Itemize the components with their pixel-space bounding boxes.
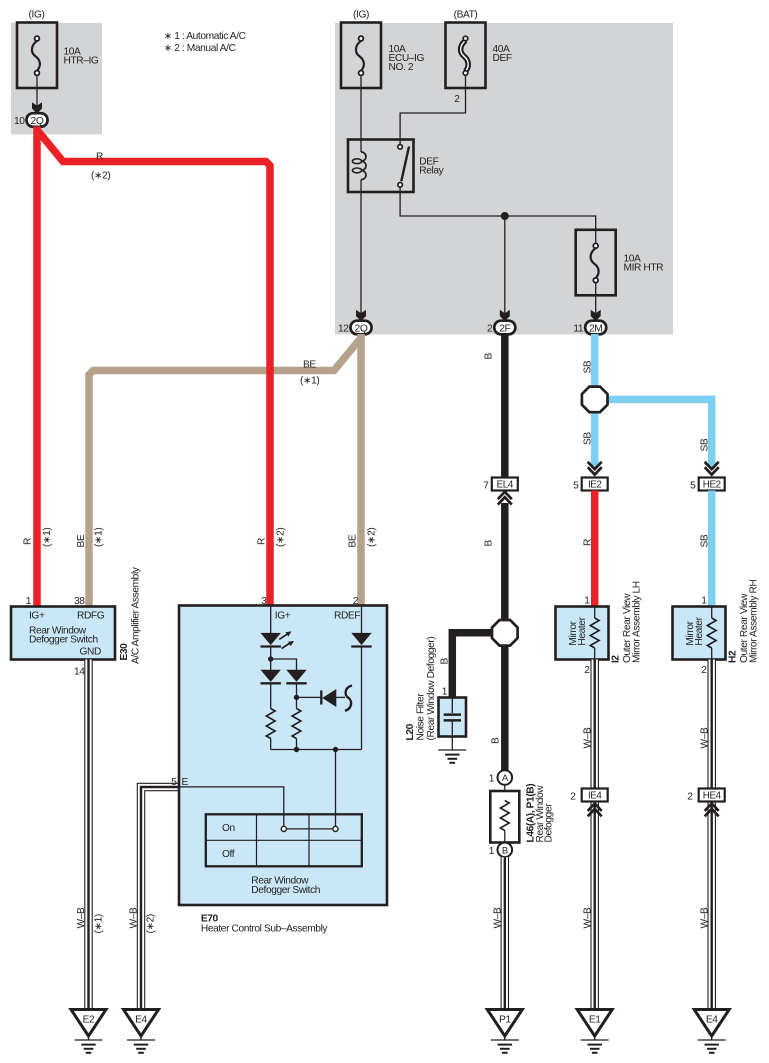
wire W-B from H2 to ground E4 — [707, 660, 716, 1010]
svg-text:E: E — [182, 777, 189, 788]
wire node to zener — [297, 696, 322, 698]
svg-text:Mirror Assembly RH: Mirror Assembly RH — [749, 580, 760, 663]
wire relay switch to 2F and MIR HTR fuse — [400, 187, 596, 230]
wire E pin to switch left contact — [180, 787, 284, 826]
svg-text:IE2: IE2 — [588, 480, 602, 491]
arrow into 11 2M — [591, 310, 601, 321]
connector B — [489, 843, 512, 858]
wire 40A DEF fuse to relay switch — [400, 88, 465, 144]
node dot bus left — [294, 747, 299, 752]
svg-text:38: 38 — [74, 596, 85, 607]
ground of noise filter — [438, 737, 466, 763]
svg-text:7: 7 — [483, 481, 489, 492]
wire B from 2F to EL4 — [501, 334, 509, 478]
noise filter L20 — [439, 698, 467, 737]
connector 12 2Q — [338, 321, 372, 335]
svg-text:(∗2): (∗2) — [367, 528, 378, 547]
arrow into 2Q — [32, 102, 42, 113]
svg-text:(∗2): (∗2) — [91, 171, 110, 182]
LED on RDEF line — [351, 633, 371, 647]
svg-text:Heater: Heater — [577, 616, 588, 645]
switch table Rear Window Defogger Switch — [206, 814, 362, 866]
wire SB from 2M to IE2 — [591, 334, 599, 468]
bus wire bottom of LEDs — [271, 749, 362, 751]
wire D1 to resistor R1 — [270, 684, 272, 709]
wire W-B from I2 to ground E1 — [590, 660, 599, 1010]
ECU E30 A/C Amplifier Assembly — [11, 607, 115, 660]
relay DEF Relay — [348, 140, 445, 193]
svg-text:5: 5 — [573, 481, 579, 492]
svg-text:B: B — [484, 353, 495, 360]
svg-text:B: B — [491, 737, 502, 744]
svg-text:B: B — [440, 658, 451, 665]
svg-text:5: 5 — [690, 481, 696, 492]
svg-text:2F: 2F — [499, 324, 510, 335]
diode D1 left — [261, 670, 281, 684]
relay coil — [352, 152, 366, 192]
svg-text:EL4: EL4 — [497, 480, 514, 491]
connector 5 IE2 — [573, 478, 608, 492]
junction octagon on B wire — [492, 620, 518, 646]
svg-text:On: On — [222, 823, 235, 834]
svg-text:R: R — [23, 538, 34, 545]
svg-text:Relay: Relay — [419, 166, 444, 177]
ground E1 — [577, 1010, 612, 1053]
wire R from IE2 to mirror heater I2 — [591, 491, 599, 607]
svg-text:3: 3 — [261, 596, 267, 607]
svg-text:(∗1): (∗1) — [42, 528, 53, 547]
node junction dot on relay output — [501, 212, 509, 220]
wire SB branch octagon to HE2 — [605, 399, 712, 467]
chevrons above IE2 — [588, 462, 602, 475]
label R (*1) rotated — [23, 528, 54, 547]
svg-text:(∗2): (∗2) — [146, 914, 157, 933]
fuse HTR-IG F1 — [17, 10, 99, 89]
svg-text:14: 14 — [74, 667, 85, 678]
wire BE *1 branch to E30 pin 38 — [89, 339, 360, 607]
wire D2 to node — [296, 684, 298, 709]
svg-text:2: 2 — [570, 792, 576, 803]
svg-text:BE: BE — [76, 534, 87, 547]
svg-text:W–B: W–B — [699, 727, 710, 748]
svg-text:B: B — [484, 540, 495, 547]
mirror heater H2 — [673, 607, 726, 660]
node dot branch — [268, 656, 273, 661]
diode D2 right — [286, 670, 306, 684]
svg-text:2: 2 — [454, 94, 460, 105]
svg-text:12: 12 — [338, 324, 349, 335]
svg-text:W–B: W–B — [493, 907, 504, 928]
svg-text:(Rear Window Defogger): (Rear Window Defogger) — [426, 637, 437, 741]
node dot zener branch — [294, 695, 299, 700]
wire BE *2 from 12 2Q to E70 pin 2 — [357, 334, 365, 606]
fuse ECU-IG NO.2 — [341, 10, 425, 89]
wire relay coil to connector 2Q — [360, 192, 362, 314]
svg-text:R: R — [257, 538, 268, 545]
chevrons below HE4 — [705, 804, 719, 817]
wire bus to switch right contact — [335, 750, 337, 827]
svg-text:SB: SB — [582, 432, 593, 445]
svg-text:1: 1 — [442, 687, 448, 698]
svg-text:E30: E30 — [119, 643, 130, 661]
wire B branch to noise filter — [452, 633, 505, 698]
svg-text:P1: P1 — [499, 1015, 511, 1026]
junction block shading top-left — [11, 23, 102, 134]
svg-text:Noise Filter: Noise Filter — [416, 693, 427, 741]
wire R1 to bus — [270, 739, 272, 750]
svg-text:(∗1): (∗1) — [94, 914, 105, 933]
svg-text:2: 2 — [487, 324, 493, 335]
wire R *2 branch to E70 pin 3 — [38, 131, 270, 606]
svg-text:Heater: Heater — [694, 616, 705, 645]
svg-text:NO. 2: NO. 2 — [389, 62, 414, 73]
svg-text:(IG): (IG) — [353, 10, 369, 21]
ground E4 right — [694, 1010, 729, 1053]
connector 2 IE4 — [570, 789, 607, 803]
svg-text:HTR–IG: HTR–IG — [64, 56, 99, 67]
rear window defogger L46 — [490, 785, 519, 843]
junction octagon on SB wire — [582, 387, 608, 413]
connector 2 2F — [487, 321, 515, 335]
svg-text:R: R — [582, 539, 593, 546]
wire R2 to bus — [296, 739, 298, 750]
wire B from EL4 to rear defogger — [501, 503, 509, 771]
connector A — [489, 770, 512, 785]
arrow into 2 2F — [500, 310, 510, 321]
svg-text:(∗1): (∗1) — [300, 376, 319, 387]
svg-text:W–B: W–B — [699, 907, 710, 928]
svg-text:2: 2 — [584, 665, 590, 676]
label R (*2) rotated — [257, 528, 287, 547]
svg-text:2Q: 2Q — [31, 116, 44, 127]
svg-text:1: 1 — [584, 595, 590, 606]
wire ECU-IG fuse to relay coil — [360, 88, 362, 152]
svg-text:HE4: HE4 — [703, 791, 722, 802]
connector 7 EL4 — [483, 478, 518, 492]
wire SB from HE2 to mirror heater H2 — [708, 491, 716, 607]
connector 10 2Q — [14, 113, 48, 127]
svg-text:A/C Amplifier Assembly: A/C Amplifier Assembly — [131, 566, 142, 664]
svg-text:(∗2): (∗2) — [276, 528, 287, 547]
svg-text:∗ 1 : Automatic A/C: ∗ 1 : Automatic A/C — [164, 31, 246, 42]
svg-text:1: 1 — [26, 596, 32, 607]
zener diode — [321, 686, 352, 711]
svg-text:HE2: HE2 — [703, 480, 721, 491]
wire fuse HTR-IG to connector 2Q — [36, 88, 38, 106]
svg-text:B: B — [502, 845, 508, 856]
svg-text:DEF: DEF — [493, 53, 512, 64]
relay switch contacts — [398, 145, 409, 188]
fuse 40A DEF — [446, 10, 512, 89]
svg-text:W–B: W–B — [582, 907, 593, 928]
ground P1 — [487, 1010, 522, 1053]
svg-text:2Q: 2Q — [355, 324, 368, 335]
svg-text:∗ 2 : Manual A/C: ∗ 2 : Manual A/C — [164, 43, 236, 54]
svg-text:1: 1 — [489, 846, 495, 857]
svg-text:11: 11 — [573, 324, 584, 335]
LED indicator on IG+ line — [261, 631, 295, 648]
connector 2 HE4 — [687, 789, 724, 803]
svg-text:R: R — [96, 152, 103, 163]
resistor R1 — [266, 709, 275, 739]
wire RDEF LED to bus — [361, 647, 363, 750]
ground E2 — [71, 1010, 106, 1053]
svg-text:1: 1 — [701, 595, 707, 606]
svg-text:(BAT): (BAT) — [454, 10, 478, 21]
svg-text:IG+: IG+ — [29, 611, 45, 622]
label L20 Noise Filter rotated — [405, 637, 437, 741]
label BE (*1) rotated — [76, 528, 105, 548]
switch contacts On row — [281, 826, 338, 831]
svg-text:Heater Control Sub–Assembly: Heater Control Sub–Assembly — [201, 924, 329, 935]
svg-text:2: 2 — [701, 665, 707, 676]
wire LED to node — [270, 647, 272, 670]
wire IG+ internal — [270, 606, 272, 633]
node dot bus right — [333, 747, 338, 752]
wire W-B *1 from E30 pin 14 to ground E2 — [84, 660, 93, 1010]
wire W-B from B to ground P1 — [501, 857, 510, 1009]
connector 11 2M — [573, 321, 606, 335]
svg-text:W–B: W–B — [582, 727, 593, 748]
resistor R2 — [292, 709, 301, 739]
svg-text:RDEF: RDEF — [334, 611, 360, 622]
svg-text:5: 5 — [171, 777, 177, 788]
label Rear Window Defogger Switch — [251, 876, 320, 896]
svg-text:IE4: IE4 — [588, 791, 602, 802]
svg-text:L20: L20 — [405, 723, 416, 740]
svg-text:SB: SB — [699, 438, 710, 451]
label BE (*2) rotated — [348, 528, 378, 548]
svg-text:SB: SB — [699, 534, 710, 547]
wire W-B *2 from E70 pin 5 to ground E4 — [141, 787, 179, 1010]
arrow into 12 2Q — [356, 310, 366, 321]
svg-text:1: 1 — [489, 774, 495, 785]
svg-text:E2: E2 — [83, 1015, 95, 1026]
svg-text:(∗1): (∗1) — [94, 528, 105, 547]
ground E4 left — [124, 1010, 159, 1053]
svg-text:Defogger: Defogger — [544, 803, 555, 843]
connector 5 HE2 — [690, 478, 725, 492]
svg-text:2: 2 — [687, 792, 693, 803]
chevrons below IE4 — [588, 804, 602, 817]
svg-text:E1: E1 — [589, 1015, 601, 1026]
wire RDEF internal — [361, 606, 363, 633]
svg-text:W–B: W–B — [76, 907, 87, 928]
chevrons above HE2 — [705, 462, 719, 475]
svg-text:10: 10 — [14, 116, 25, 127]
mirror heater I2 — [556, 607, 609, 660]
svg-text:E4: E4 — [135, 1015, 147, 1026]
chevrons below EL4 — [498, 492, 512, 505]
svg-text:BE: BE — [303, 360, 316, 371]
svg-text:I2: I2 — [611, 655, 622, 663]
svg-text:Mirror Assembly LH: Mirror Assembly LH — [632, 581, 643, 663]
svg-text:Defogger Switch: Defogger Switch — [29, 635, 98, 646]
svg-text:2: 2 — [353, 596, 359, 607]
wire branch to right diode — [271, 659, 297, 670]
svg-text:BE: BE — [348, 534, 359, 547]
svg-text:Defogger Switch: Defogger Switch — [251, 885, 320, 896]
svg-text:(IG): (IG) — [29, 10, 45, 21]
label I2 Outer Rear View Mirror Assembly LH rotated — [611, 581, 643, 663]
wire junction to 2F — [504, 216, 506, 314]
ECU E70 Heater Control Sub-Assembly — [179, 606, 387, 906]
svg-text:Off: Off — [222, 849, 235, 860]
svg-text:E4: E4 — [706, 1015, 718, 1026]
svg-text:H2: H2 — [728, 650, 739, 663]
fuse 10A MIR HTR — [576, 230, 663, 295]
svg-text:IG+: IG+ — [275, 611, 291, 622]
svg-text:MIR HTR: MIR HTR — [624, 263, 664, 274]
svg-text:2M: 2M — [589, 324, 603, 335]
label H2 Outer Rear View Mirror Assembly RH rotated — [728, 580, 760, 663]
svg-text:GND: GND — [80, 646, 101, 657]
label L46(A) P1(B) Rear Window Defogger rotated — [526, 784, 555, 843]
wire MIR HTR fuse to 2M — [595, 296, 597, 314]
junction block shading top-right — [335, 23, 673, 334]
svg-text:W–B: W–B — [129, 907, 140, 928]
wire R *1 from 2Q to E30 pin 1 — [33, 127, 41, 607]
svg-text:RDFG: RDFG — [77, 611, 105, 622]
svg-text:SB: SB — [582, 360, 593, 373]
